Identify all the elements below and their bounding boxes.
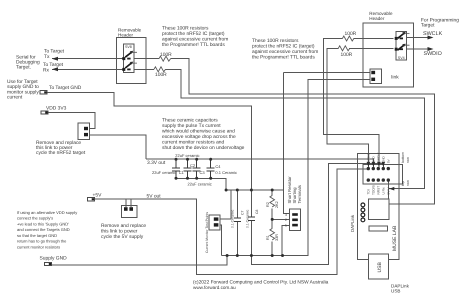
svg-text:Tx: Tx: [44, 54, 50, 60]
wire link J3 top net to shorting pin 3: [284, 73, 290, 214]
svg-text:DAPLink: DAPLink: [350, 214, 355, 232]
wire 3.3V out rail: [146, 159, 374, 167]
svg-text:shut down the device on underv: shut down the device on undervoltage: [162, 145, 245, 151]
svg-text:Use for Target: Use for Target: [7, 79, 38, 85]
svg-text:These 100R resistors: These 100R resistors: [162, 26, 209, 32]
resistor 100R right lower zigzag: [338, 46, 349, 51]
svg-text:5V out: 5V out: [147, 194, 162, 200]
svg-text:100R: 100R: [160, 52, 172, 58]
svg-text:R1: R1: [266, 235, 270, 240]
arrow jumper SV8 a: [130, 51, 134, 54]
svg-text:These ceramic capacitors: These ceramic capacitors: [162, 118, 218, 124]
svg-text:SWDIO: SWDIO: [424, 51, 442, 57]
resistor R2 stubs: [271, 190, 273, 219]
svg-text:C2: C2: [190, 163, 196, 168]
capacitor C7 column: [236, 190, 238, 256]
LED 4: [361, 218, 365, 222]
resistor 100R right upper zigzag: [342, 36, 353, 41]
svg-text:Supply GND: Supply GND: [40, 256, 68, 262]
junction dots: [175, 158, 390, 257]
wire supply rail to header GND pin: [251, 164, 383, 265]
rotated labels: [205, 152, 410, 273]
svg-text:U Rx: U Rx: [382, 187, 386, 194]
arrow jumper SV4 a: [402, 32, 406, 35]
wire To Target Rx: [52, 68, 154, 70]
node cap bottom rail dots: [175, 177, 178, 180]
node header pins top row: [367, 167, 370, 170]
svg-text:Target: Target: [421, 23, 435, 29]
svg-text:Header: Header: [369, 16, 385, 21]
svg-text:VDD 3V3: VDD 3V3: [46, 106, 67, 112]
LED 3: [361, 213, 365, 217]
svg-text:5V: 5V: [387, 159, 391, 163]
tab +5V: [88, 198, 95, 201]
svg-text:22uF ceramic: 22uF ceramic: [152, 170, 176, 175]
wire link J1 bottom pin to 3.3V rail: [90, 135, 146, 159]
svg-text:cycle the nRF52 target: cycle the nRF52 target: [36, 150, 86, 156]
svg-text:the Programmer! TTL boards: the Programmer! TTL boards: [162, 42, 225, 48]
svg-text:1: 1: [285, 223, 287, 227]
svg-text:0.1 Ceramic: 0.1 Ceramic: [215, 170, 237, 175]
box removable header right: [363, 23, 414, 87]
svg-text:Remove and replace: Remove and replace: [101, 223, 146, 229]
svg-text:Header: Header: [118, 33, 134, 38]
svg-text:the Programmer! TTL boards: the Programmer! TTL boards: [252, 55, 315, 61]
svg-text:MUSE LAB: MUSE LAB: [392, 225, 398, 251]
svg-text:top: top: [401, 181, 405, 186]
svg-text:against excessive current from: against excessive current from: [162, 37, 228, 43]
svg-text:connect the supply's: connect the supply's: [17, 216, 53, 221]
capacitor C1: [172, 159, 180, 178]
wire header pin5 bottom to IC: [387, 180, 389, 199]
wire supply rail (bottom): [222, 80, 371, 256]
jumper arrows SV4: [398, 33, 405, 50]
node 3.3V rail dots: [175, 158, 178, 161]
svg-text:GND: GND: [382, 156, 386, 164]
svg-text:TDI: TDI: [367, 189, 371, 194]
svg-text:R2: R2: [266, 202, 270, 207]
wire Rx after 100R to bus: [166, 69, 425, 188]
USB connector box: [368, 254, 388, 279]
wire test point top pin: [220, 190, 231, 219]
svg-text:To Target: To Target: [43, 62, 64, 68]
svg-text:0.1 Ceramic: 0.1 Ceramic: [246, 209, 250, 228]
link J1 body: [78, 123, 90, 140]
wire +5V to 5V out: [95, 169, 369, 274]
tab To Target GND: [40, 91, 47, 94]
svg-text:Rx: Rx: [43, 67, 50, 73]
svg-text:3: 3: [285, 213, 287, 217]
capacitor C4: [207, 159, 215, 178]
svg-text:2: 2: [285, 218, 287, 222]
link J2 body: [121, 206, 137, 218]
arrow jumper SV8 b: [130, 62, 134, 65]
arrow into pin5 bottom: [389, 187, 394, 191]
LEDs: [361, 203, 365, 222]
resistor R1 stubs: [271, 219, 273, 255]
connector SV4 body: [396, 32, 406, 61]
wire Tx after 100R to bus: [171, 59, 435, 205]
svg-text:NRST: NRST: [377, 186, 381, 195]
component pins (black squares): [84, 37, 403, 227]
wire 100R upper right to SV4: [324, 39, 394, 167]
svg-text:100R: 100R: [155, 72, 167, 78]
svg-text:100R: 100R: [341, 52, 353, 58]
wire link J3 top pin: [284, 72, 371, 74]
link J1 pins: [84, 127, 88, 130]
capacitor C8 column (target GND riser): [250, 110, 252, 256]
svg-text:this link to power: this link to power: [101, 229, 138, 235]
svg-text:0.1 Ceramic: 0.1 Ceramic: [231, 209, 235, 228]
svg-text:SWDIO: SWDIO: [367, 152, 371, 163]
resistor 100R left lower zigzag: [154, 67, 166, 72]
wire link J2 pin stubs: [126, 199, 131, 207]
shorting terminal pins: [292, 213, 298, 216]
wire target GND rail: [226, 189, 283, 191]
svg-text:If using an alternative VDD su: If using an alternative VDD supply: [17, 210, 77, 215]
svg-text:C4: C4: [215, 164, 221, 169]
capacitor C8 plates: [248, 217, 255, 221]
svg-text:22uF ceramic: 22uF ceramic: [175, 153, 199, 158]
DAPLink small pad: [369, 226, 387, 231]
wire capacitor bottom rail: [176, 178, 226, 190]
arrow into pin2: [372, 162, 376, 167]
svg-text:C7: C7: [240, 211, 244, 215]
svg-text:www.forward.com.au: www.forward.com.au: [193, 285, 236, 290]
resistor 100R left upper zigzag: [159, 56, 171, 61]
capacitor C3: [193, 159, 201, 178]
arrows: [52, 32, 434, 191]
svg-text:and connect the Targets GND: and connect the Targets GND: [17, 227, 70, 232]
arrow Rx: [52, 67, 58, 71]
shorting terminals connector body: [290, 209, 301, 230]
svg-text:To Target GND: To Target GND: [49, 85, 82, 91]
arrow Tx: [52, 57, 58, 61]
svg-text:+5V: +5V: [93, 193, 103, 199]
SV4 pins: [395, 37, 398, 40]
svg-text:100R: 100R: [345, 31, 357, 37]
wire To Target Tx: [52, 58, 159, 60]
node R junction dot: [271, 218, 274, 221]
svg-text:22uF ceramic: 22uF ceramic: [188, 181, 212, 186]
DAPLink 2x5 header box: [363, 165, 402, 184]
svg-text:so that the target GND: so that the target GND: [17, 233, 57, 238]
wire To Target GND: [47, 92, 251, 190]
resistor R2 vertical zigzag: [270, 196, 275, 208]
node header pins bottom row: [367, 178, 370, 181]
DAPLink IC: [369, 199, 390, 220]
test point connector body: [209, 215, 220, 230]
link J3 body: [370, 69, 382, 84]
resistor zigzags and diagonals (antialiased): [125, 33, 409, 240]
svg-text:SWCLK: SWCLK: [423, 31, 443, 37]
svg-text:USB: USB: [391, 289, 400, 294]
arrow into pin1: [367, 162, 371, 167]
arrow jumper SV4 b: [402, 44, 406, 47]
svg-text:monitor supply: monitor supply: [7, 89, 39, 95]
test point pins: [214, 217, 219, 220]
capacitor C2: [184, 159, 192, 178]
svg-text:protect the nRF52 IC (target): protect the nRF52 IC (target): [162, 31, 225, 37]
svg-text:current monitor resistors: current monitor resistors: [17, 245, 60, 250]
wire VDD 3V3 to link: [48, 113, 95, 129]
svg-text:5V U: 5V U: [387, 187, 391, 195]
DAPLink board outline: [358, 154, 399, 260]
svg-text:C1: C1: [179, 170, 185, 175]
tab VDD 3V3: [41, 111, 48, 114]
svg-text:SWCLK: SWCLK: [377, 152, 381, 163]
svg-text:33R: 33R: [275, 234, 279, 241]
svg-text:cycle the 5V supply: cycle the 5V supply: [101, 234, 144, 240]
svg-text:current: current: [7, 95, 23, 101]
connector SV8 body: [124, 44, 134, 73]
svg-text:supply the pulse Tx current: supply the pulse Tx current: [162, 123, 221, 129]
svg-text:bottom: bottom: [401, 152, 405, 163]
svg-text:SV4: SV4: [398, 56, 405, 60]
link J3 pins: [371, 71, 375, 74]
wire SWCLK: [406, 37, 430, 39]
svg-text:TDO/S: TDO/S: [372, 185, 376, 195]
svg-text:Target.: Target.: [16, 65, 31, 71]
svg-text:which would otherwise cause an: which would otherwise cause and: [162, 129, 235, 135]
wire shorting pin 2: [272, 218, 290, 220]
svg-text:3.3V out: 3.3V out: [147, 160, 166, 166]
svg-text:These 100R resistors: These 100R resistors: [252, 38, 299, 44]
arrow into pin4: [382, 162, 386, 167]
arrow SWDIO: [428, 47, 434, 51]
LED 1: [361, 203, 365, 207]
svg-text:excessive voltage drop across: excessive voltage drop across the: [162, 134, 236, 140]
resistor R1 vertical zigzag: [270, 229, 275, 241]
link J2 pins: [124, 207, 128, 211]
wire test point bottom pin: [220, 225, 222, 256]
svg-text:return has to go through the: return has to go through the: [17, 239, 67, 244]
svg-text:GND: GND: [372, 156, 376, 164]
svg-text:To Target: To Target: [44, 49, 65, 55]
svg-text:protect the nRF52 IC (target): protect the nRF52 IC (target): [252, 44, 315, 50]
svg-text:Current Monitor Test Points: Current Monitor Test Points: [205, 212, 209, 253]
capacitor plates: [172, 159, 255, 222]
jumper arrows SV8: [125, 52, 132, 68]
svg-text:row: row: [406, 157, 410, 163]
svg-text:C3: C3: [200, 170, 206, 175]
box removable header left: [116, 38, 146, 84]
capacitor C7 plates: [234, 218, 241, 222]
wire SWDIO: [406, 48, 430, 50]
arrow into pin3: [377, 162, 381, 167]
svg-text:USB: USB: [377, 262, 383, 273]
wire shorting pin 1 to supply rail: [282, 225, 290, 255]
wire 100R lower right to SV4: [327, 48, 393, 167]
svg-text:link: link: [391, 75, 399, 81]
svg-text:supply GND to: supply GND to: [7, 84, 39, 90]
svg-text:row: row: [406, 180, 410, 186]
SV8 pins: [122, 57, 125, 60]
node supply rail dots: [226, 254, 229, 257]
svg-text:C8: C8: [255, 210, 259, 214]
svg-text:against excessive current from: against excessive current from: [252, 49, 318, 55]
LED 2: [361, 208, 365, 212]
wire Supply GND: [52, 256, 228, 265]
tab Supply GND: [45, 262, 52, 265]
svg-text:2K2: 2K2: [275, 201, 279, 208]
arrow SWCLK: [428, 36, 434, 40]
svg-text:Terminals: Terminals: [297, 185, 302, 203]
node target GND rail dots: [225, 189, 228, 192]
svg-text:current monitor resistors and: current monitor resistors and: [162, 140, 225, 146]
svg-text:SV8: SV8: [125, 45, 132, 49]
terminal tabs: [40, 91, 95, 266]
svg-text:+ve lead to this 'Supply GND': +ve lead to this 'Supply GND': [17, 221, 69, 226]
